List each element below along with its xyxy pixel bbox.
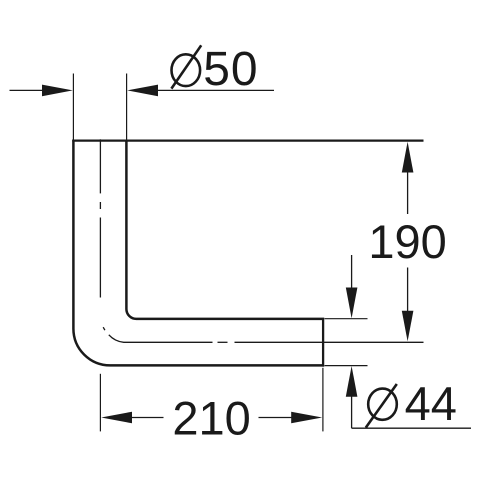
dim210 left dimension line — [131, 417, 164, 419]
dim190 upper dimension line — [407, 172, 409, 215]
dia44 lower arrow line — [351, 396, 353, 428]
centerline vertical dash 2 — [99, 218, 101, 298]
dia50 diameter symbol circle — [172, 54, 201, 86]
pipe end cap — [322, 318, 324, 367]
dia44 diameter symbol slash — [366, 384, 397, 428]
dia50 diameter symbol slash — [171, 45, 201, 88]
dia50 right dimension line — [157, 89, 274, 91]
dia50 right arrowhead — [127, 85, 158, 97]
dia44 extension line bottom — [325, 365, 368, 367]
dia44 upper arrow line — [351, 255, 353, 289]
dia50 left arrowhead — [42, 85, 73, 97]
centerline vertical dot — [99, 202, 101, 209]
dim210 extension line right — [322, 368, 324, 432]
dia50 extension line left — [72, 74, 74, 140]
dim190 lower dimension line — [407, 268, 409, 312]
svg-text:210: 210 — [172, 392, 250, 445]
centerline bend-to-horizontal dash — [109, 335, 213, 343]
dia50 left leader line — [10, 89, 44, 91]
dim210 extension line left — [99, 374, 101, 432]
pipe inner contour — [126, 140, 322, 319]
pipe outer contour — [73, 140, 322, 366]
dia44 lower arrowhead — [346, 366, 358, 397]
dia44 extension line top — [325, 318, 368, 320]
svg-text:44: 44 — [405, 377, 457, 430]
dim210 left arrowhead — [101, 412, 132, 424]
dia44 diameter symbol circle — [368, 389, 397, 420]
svg-text:50: 50 — [203, 43, 258, 96]
centerline horizontal dot — [218, 341, 228, 343]
centerline horizontal long dash / extension — [235, 341, 424, 343]
dim210 right arrowhead — [291, 412, 322, 424]
dim190 upper arrowhead — [402, 142, 414, 173]
dim190 lower arrowhead — [402, 311, 414, 342]
dia44 upper arrowhead — [346, 288, 358, 319]
dia50 extension line right — [126, 74, 128, 140]
centerline bend dot — [103, 327, 105, 330]
pipe top edge line — [72, 140, 423, 142]
centerline vertical dash — [99, 139, 101, 193]
svg-text:190: 190 — [368, 215, 446, 268]
dia44 leader line — [352, 427, 471, 429]
dim210 right dimension line — [259, 417, 293, 419]
